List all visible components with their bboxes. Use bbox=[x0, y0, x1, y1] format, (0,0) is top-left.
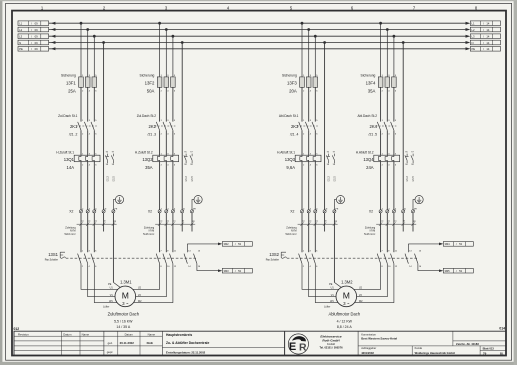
wire 13F3 N drop bbox=[324, 43, 326, 210]
PE earth connection symbol bbox=[194, 196, 202, 204]
net reference box 3M2 / 53 bbox=[222, 242, 252, 247]
switch 13S1 pole 11-12 bbox=[170, 254, 173, 264]
wire 13Q2 pin4 to terminal X2 bbox=[165, 162, 167, 210]
wire X2 to switch pole (phase 2) bbox=[386, 213, 388, 252]
net destination box L1 / 14 bbox=[470, 21, 500, 26]
wire 13S2 aux to 3M5/53 bbox=[418, 270, 439, 272]
net reference box 3M4 / 53 bbox=[443, 242, 473, 247]
svg-text:09: 09 bbox=[35, 41, 38, 45]
svg-text:14 / 35 A: 14 / 35 A bbox=[116, 325, 130, 329]
svg-text:13F4: 13F4 bbox=[366, 80, 376, 85]
wire 13F4 pin4 to 2K4 pin3 bbox=[386, 87, 388, 121]
wire X2 to switch pole (phase 3) bbox=[393, 213, 395, 252]
svg-text:Zuluftmotor Dach: Zuluftmotor Dach bbox=[108, 312, 140, 317]
wire 13Q1 pin6 to terminal X2 bbox=[93, 162, 95, 210]
net source box L2 / 09 bbox=[18, 27, 49, 32]
wire switch to motor W2 bbox=[125, 264, 173, 303]
svg-text:L2: L2 bbox=[472, 28, 475, 32]
wire 13Q4 pin2 to terminal X2 bbox=[380, 162, 382, 210]
switch 13S2 pole 9-10 bbox=[384, 254, 387, 264]
title block kommission section bbox=[357, 331, 359, 355]
PE earth connection symbol bbox=[115, 196, 123, 204]
wire switch to motor V2 bbox=[125, 264, 166, 297]
svg-text:Name: Name bbox=[148, 332, 156, 336]
svg-text:Best Western Savoy-Hotel: Best Western Savoy-Hotel bbox=[361, 337, 397, 341]
terminal X2:2 bbox=[158, 210, 161, 213]
wire X2 PE to motor bbox=[112, 213, 114, 283]
svg-text:1.3M1: 1.3M1 bbox=[120, 279, 132, 284]
switch 13S1 pole 1-2 bbox=[78, 254, 81, 264]
svg-text:Sicherung: Sicherung bbox=[140, 73, 155, 77]
title block blatt number bbox=[479, 346, 481, 356]
wire 2K2 pin6 to 13Q2 pin5 bbox=[172, 130, 174, 155]
svg-text:H.Abluft St.1: H.Abluft St.1 bbox=[277, 150, 295, 154]
switch 13S2 pole 7-8 bbox=[377, 254, 380, 264]
svg-text:Zeichn.-Nr. 41183: Zeichn.-Nr. 41183 bbox=[456, 342, 479, 346]
cable marker 1.3W1 with core labels bbox=[298, 223, 338, 225]
terminal X2:4 bbox=[307, 210, 310, 213]
svg-text:gg: gg bbox=[413, 221, 415, 223]
svg-text:Abl.Dach St.1: Abl.Dach St.1 bbox=[279, 114, 299, 118]
wire X2 to switch pole (phase 1) bbox=[159, 213, 161, 252]
wire X2 to switch pole (phase 3) bbox=[93, 213, 95, 252]
svg-text:13Q3: 13Q3 bbox=[285, 157, 296, 162]
terminal X2:PE bbox=[333, 210, 336, 213]
svg-text:Tel. 02151 / 500576: Tel. 02151 / 500576 bbox=[319, 346, 343, 350]
svg-text:012: 012 bbox=[14, 327, 20, 331]
junction node L2/13F1 bbox=[86, 28, 89, 31]
terminal X2:N bbox=[323, 210, 326, 213]
wire X2 N stub bbox=[103, 213, 105, 232]
svg-text:Lüfter: Lüfter bbox=[103, 305, 109, 308]
svg-text:13Q2: 13Q2 bbox=[142, 157, 153, 162]
wire 13F1 phase L1 drop bbox=[80, 23, 82, 77]
svg-text:3M3: 3M3 bbox=[224, 269, 230, 273]
svg-text:H.Zuluft St.2: H.Zuluft St.2 bbox=[135, 150, 153, 154]
junction node L1/13F3 bbox=[301, 22, 304, 25]
svg-text:N: N bbox=[19, 41, 21, 45]
wire X2 PE stub bbox=[412, 213, 414, 232]
svg-text:Zul.Dach St.2: Zul.Dach St.2 bbox=[137, 114, 157, 118]
svg-text:4 / 12 KW: 4 / 12 KW bbox=[337, 319, 353, 323]
title block gez/gepr section bbox=[103, 331, 105, 355]
svg-text:9,6A: 9,6A bbox=[286, 165, 295, 170]
svg-text:/ 21.2: / 21.2 bbox=[328, 176, 330, 182]
svg-text:X2: X2 bbox=[69, 210, 73, 214]
svg-text:5x16 mm²: 5x16 mm² bbox=[143, 233, 154, 236]
svg-text:14: 14 bbox=[486, 22, 489, 26]
svg-text:2K4: 2K4 bbox=[370, 124, 378, 129]
junction node L1/13F4 bbox=[379, 22, 382, 25]
wire 13F1 phase L2 drop bbox=[87, 30, 89, 77]
wire 13F4 phase L3 drop bbox=[393, 36, 395, 77]
svg-text:gg: gg bbox=[114, 221, 116, 223]
svg-text:Blatt 013: Blatt 013 bbox=[483, 346, 495, 350]
svg-text:2K3: 2K3 bbox=[291, 124, 299, 129]
svg-text:14: 14 bbox=[486, 35, 489, 39]
svg-text:3 ~: 3 ~ bbox=[122, 301, 129, 306]
svg-text:/21 .3: /21 .3 bbox=[148, 132, 157, 136]
svg-text:79: 79 bbox=[483, 352, 487, 356]
svg-text:Datum: Datum bbox=[125, 332, 134, 336]
svg-text:/ 21.5: / 21.5 bbox=[334, 176, 336, 182]
svg-text:Wolderings Haustechnik GmbH: Wolderings Haustechnik GmbH bbox=[415, 351, 455, 355]
wire X2 N stub bbox=[181, 213, 183, 232]
PE earth connection symbol bbox=[336, 196, 344, 204]
svg-text:Roth GmbH: Roth GmbH bbox=[322, 338, 340, 342]
wire 13Q1 pin4 to terminal X2 bbox=[87, 162, 89, 210]
wire 13F4 pin2 to 2K4 pin1 bbox=[380, 87, 382, 121]
svg-text:/ 21.2: / 21.2 bbox=[107, 176, 109, 182]
net destination box N / 14 bbox=[470, 40, 500, 45]
wire 13S1 aux to 3M2/53 bbox=[187, 243, 218, 245]
net destination box L2 / 14 bbox=[470, 27, 500, 32]
wire 13F1 N drop bbox=[103, 43, 105, 210]
title block frame bbox=[14, 331, 506, 355]
net source box N / 09 bbox=[18, 40, 49, 45]
svg-text:09: 09 bbox=[35, 47, 38, 51]
svg-text:H.Zuluft St.1: H.Zuluft St.1 bbox=[56, 150, 74, 154]
svg-text:3M4: 3M4 bbox=[445, 242, 451, 246]
wire switch to motor UU1 bbox=[302, 264, 346, 290]
svg-text:gez.: gez. bbox=[108, 341, 114, 345]
svg-text:M: M bbox=[122, 291, 129, 301]
svg-text:L2: L2 bbox=[19, 28, 22, 32]
wire 13F4 phase L2 drop bbox=[386, 30, 388, 77]
wire 13F3 pin2 to 2K3 pin1 bbox=[301, 87, 303, 121]
junction node L2/13F4 bbox=[386, 28, 389, 31]
terminal X2:PE bbox=[190, 210, 193, 213]
wire 2K2 pin2 to 13Q2 pin1 bbox=[159, 130, 161, 155]
wire bus N bbox=[49, 42, 466, 44]
svg-text:Rep.Schalter: Rep.Schalter bbox=[266, 259, 280, 262]
wire 13F4 phase L1 drop bbox=[380, 23, 382, 77]
terminal X2:4 bbox=[86, 210, 89, 213]
cable marker 1.3W1 with core labels bbox=[77, 223, 117, 225]
wire switch to motor U2 bbox=[125, 264, 159, 290]
wire 13Q3 pin6 to terminal X2 bbox=[314, 162, 316, 210]
terminal X2:6 bbox=[392, 210, 395, 213]
wire 2K4 pin2 to 13Q4 pin1 bbox=[380, 130, 382, 155]
svg-text:/21 .2: /21 .2 bbox=[69, 132, 78, 136]
switch 13S2 pole 1-2 bbox=[299, 254, 302, 264]
svg-text:50A: 50A bbox=[147, 89, 155, 94]
switch 13S1 auxiliary contact 13-14 bbox=[184, 254, 187, 264]
svg-text:/ 21.5: / 21.5 bbox=[113, 176, 115, 182]
wire switch to motor V2 bbox=[346, 264, 387, 297]
wire X2 N stub bbox=[324, 213, 326, 232]
junction node L3/13F3 bbox=[314, 35, 317, 38]
svg-text:X2: X2 bbox=[148, 210, 152, 214]
wire 13F4 N drop bbox=[402, 43, 404, 210]
svg-text:14: 14 bbox=[486, 47, 489, 51]
junction node L3/13F2 bbox=[172, 35, 175, 38]
motor 1.3M2 (M 3~) bbox=[336, 286, 357, 307]
junction node L2/13F2 bbox=[165, 28, 168, 31]
svg-text:L3: L3 bbox=[19, 35, 22, 39]
net destination box L3 / 14 bbox=[470, 34, 500, 39]
wire 13F3 phase L3 drop bbox=[314, 36, 316, 77]
wire PE lead from earth symbol bbox=[334, 200, 336, 210]
wire 2K1 pin4 to 13Q1 pin3 bbox=[87, 130, 89, 155]
wire 13F1 pin4 to 2K1 pin3 bbox=[87, 87, 89, 121]
wire PE lead from earth symbol bbox=[113, 200, 115, 210]
PE earth connection symbol bbox=[415, 196, 423, 204]
svg-text:5,5 / 16 KW: 5,5 / 16 KW bbox=[114, 319, 133, 323]
wire X2 to switch pole (phase 1) bbox=[80, 213, 82, 252]
svg-text:Zul.Dach St.1: Zul.Dach St.1 bbox=[58, 114, 78, 118]
svg-text:Erstellungsdatum: 22.11.200: Erstellungsdatum: 22.11.2002 bbox=[166, 350, 206, 354]
terminal X2:6 bbox=[93, 210, 96, 213]
svg-text:Sicherung: Sicherung bbox=[282, 73, 297, 77]
svg-text:14A: 14A bbox=[67, 165, 75, 170]
wire switch to motor UV1 bbox=[88, 264, 126, 297]
svg-text:8,8 / 24 A: 8,8 / 24 A bbox=[337, 325, 352, 329]
svg-text:X2: X2 bbox=[369, 210, 373, 214]
title block revision table bbox=[14, 335, 104, 337]
svg-text:Datum: Datum bbox=[63, 332, 72, 336]
svg-text:13S2: 13S2 bbox=[269, 252, 279, 257]
junction node L1/13F2 bbox=[158, 22, 161, 25]
wire 13S1 aux to 3M3/53 bbox=[197, 270, 218, 272]
wire PE to motor bbox=[334, 282, 341, 287]
svg-text:13F3: 13F3 bbox=[287, 80, 297, 85]
motor 1.3M1 (M 3~) bbox=[115, 286, 136, 307]
svg-text:13Q1: 13Q1 bbox=[64, 157, 75, 162]
svg-text:14: 14 bbox=[486, 28, 489, 32]
svg-text:Revision: Revision bbox=[18, 332, 29, 336]
wire 13F2 phase L2 drop bbox=[165, 30, 167, 77]
switch 13S1 pole 7-8 bbox=[156, 254, 159, 264]
wire 13Q3 pin2 to terminal X2 bbox=[301, 162, 303, 210]
wire X2 to switch pole (phase 2) bbox=[165, 213, 167, 252]
wire 13F1 pin2 to 2K1 pin1 bbox=[80, 87, 82, 121]
svg-text:2K1: 2K1 bbox=[70, 124, 78, 129]
switch 13S1 pole 3-4 bbox=[84, 254, 87, 264]
wire 13Q2 pin2 to terminal X2 bbox=[159, 162, 161, 210]
wire bus L2 bbox=[49, 29, 466, 31]
wire switch to motor UU1 bbox=[81, 264, 125, 290]
net source box L1 / 09 bbox=[18, 21, 49, 26]
wire X2 PE stub bbox=[191, 213, 193, 232]
svg-text:Sicherung: Sicherung bbox=[61, 73, 76, 77]
terminal X2:N bbox=[402, 210, 405, 213]
switch 13S1 pole 9-10 bbox=[163, 254, 166, 264]
svg-text:1.3M2: 1.3M2 bbox=[341, 279, 353, 284]
svg-text:25A: 25A bbox=[68, 89, 76, 94]
svg-text:Hauptstromkreis: Hauptstromkreis bbox=[166, 333, 192, 337]
terminal X2:N bbox=[102, 210, 105, 213]
wire 2K3 pin6 to 13Q3 pin5 bbox=[314, 130, 316, 155]
wire 13F3 pin4 to 2K3 pin3 bbox=[308, 87, 310, 121]
svg-text:Kunde: Kunde bbox=[415, 346, 423, 350]
net source box L3 / 09 bbox=[18, 34, 49, 39]
svg-text:M: M bbox=[343, 291, 350, 301]
svg-text:E: E bbox=[289, 341, 296, 353]
wire switch to motor W2 bbox=[346, 264, 394, 303]
wire X2 to switch pole (phase 3) bbox=[172, 213, 174, 252]
wire 13S2 aux to 3M4/53 bbox=[408, 243, 439, 245]
title block auftraggeber/kunde row bbox=[358, 345, 506, 347]
terminal X2:PE bbox=[411, 210, 414, 213]
svg-text:gg: gg bbox=[192, 221, 194, 223]
svg-text:X2: X2 bbox=[290, 210, 294, 214]
svg-text:Sicherung: Sicherung bbox=[361, 73, 376, 77]
svg-text:09: 09 bbox=[35, 22, 38, 26]
switch 13S2 pole 5-6 bbox=[312, 254, 315, 264]
wire 13F4 pin6 to 2K4 pin5 bbox=[393, 87, 395, 121]
svg-text:Krefeld: Krefeld bbox=[327, 343, 336, 346]
wire 2K4 pin4 to 13Q4 pin3 bbox=[386, 130, 388, 155]
svg-text:13F1: 13F1 bbox=[66, 80, 76, 85]
switch 13S2 pole 3-4 bbox=[305, 254, 308, 264]
switch 13S2 auxiliary contact 13-14 bbox=[405, 254, 408, 264]
terminal X2:4 bbox=[165, 210, 168, 213]
wire X2 to switch pole (phase 1) bbox=[301, 213, 303, 252]
wire 13Q4 pin6 to terminal X2 bbox=[393, 162, 395, 210]
svg-text:H.Abluft St.2: H.Abluft St.2 bbox=[356, 150, 374, 154]
terminal X2:6 bbox=[314, 210, 317, 213]
svg-text:PE: PE bbox=[108, 283, 112, 286]
svg-text:35A: 35A bbox=[368, 89, 376, 94]
switch 13S1 auxiliary contact 15-16 bbox=[194, 254, 197, 264]
company logo Elektroservice Roth bbox=[284, 331, 286, 355]
junction node N/13F4 bbox=[402, 41, 405, 44]
wire bus L1 bbox=[49, 22, 466, 24]
switch 13S2 auxiliary contact 15-16 bbox=[415, 254, 418, 264]
wire X2 to switch pole (phase 2) bbox=[87, 213, 89, 252]
wire 2K2 pin4 to 13Q2 pin3 bbox=[165, 130, 167, 155]
title block drawing title bbox=[161, 331, 163, 355]
wire 13F2 phase L1 drop bbox=[159, 23, 161, 77]
terminal X2:2 bbox=[300, 210, 303, 213]
svg-text:Abl.Dach St.2: Abl.Dach St.2 bbox=[358, 114, 378, 118]
terminal X2:N bbox=[181, 210, 184, 213]
svg-text:20.11.2002: 20.11.2002 bbox=[120, 341, 135, 345]
svg-text:/ 21.2: / 21.2 bbox=[186, 176, 188, 182]
svg-text:24A: 24A bbox=[366, 165, 374, 170]
svg-text:/21 .5: /21 .5 bbox=[369, 132, 378, 136]
svg-text:5x16 mm²: 5x16 mm² bbox=[364, 233, 375, 236]
wire X2 PE to motor bbox=[333, 213, 335, 283]
svg-text:L1: L1 bbox=[472, 22, 475, 26]
terminal X2:2 bbox=[379, 210, 382, 213]
net reference box 3M3 / 53 bbox=[222, 268, 252, 273]
switch 13S1 mechanical linkage (dashed) bbox=[66, 257, 198, 259]
net destination box PE / 14 bbox=[470, 47, 500, 52]
svg-text:Zu- & Ablüfter Dachzentrale: Zu- & Ablüfter Dachzentrale bbox=[166, 341, 209, 345]
wire 13F3 phase L2 drop bbox=[308, 30, 310, 77]
junction node N/13F3 bbox=[323, 41, 326, 44]
junction node L1/13F1 bbox=[80, 22, 83, 25]
svg-text:14: 14 bbox=[486, 41, 489, 45]
svg-text:Name: Name bbox=[82, 332, 90, 336]
svg-text:Lüfter: Lüfter bbox=[324, 305, 330, 308]
junction node N/13F1 bbox=[102, 41, 105, 44]
wire X2 to switch pole (phase 1) bbox=[380, 213, 382, 252]
svg-text:L3: L3 bbox=[472, 35, 475, 39]
svg-text:Kommission: Kommission bbox=[361, 332, 376, 336]
svg-text:PE: PE bbox=[329, 283, 333, 286]
wire X2 to switch pole (phase 3) bbox=[314, 213, 316, 252]
wire 13F2 N drop bbox=[181, 43, 183, 210]
svg-text:3M2: 3M2 bbox=[224, 242, 230, 246]
switch 13S1 pole 5-6 bbox=[91, 254, 94, 264]
terminal X2:PE bbox=[112, 210, 115, 213]
cable marker 1.3W2 with core labels bbox=[376, 223, 416, 225]
svg-text:5x16 mm²: 5x16 mm² bbox=[64, 233, 75, 236]
svg-text:PE: PE bbox=[472, 47, 476, 51]
wire switch to motor UW1 bbox=[315, 264, 346, 303]
svg-text:Roth: Roth bbox=[147, 341, 154, 345]
terminal X2:6 bbox=[171, 210, 174, 213]
wire PE lead from earth symbol bbox=[192, 200, 194, 210]
wire 13F3 phase L1 drop bbox=[301, 23, 303, 77]
svg-text:Abluftmotor Dach: Abluftmotor Dach bbox=[328, 312, 360, 317]
svg-text:13F2: 13F2 bbox=[145, 80, 155, 85]
svg-text:/ 21.2: / 21.2 bbox=[407, 176, 409, 182]
wire 2K4 pin6 to 13Q4 pin5 bbox=[393, 130, 395, 155]
junction node L2/13F3 bbox=[307, 28, 310, 31]
wire X2 to switch pole (phase 2) bbox=[308, 213, 310, 252]
svg-text:Rep.Schalter: Rep.Schalter bbox=[45, 259, 59, 262]
svg-text:/21 .4: /21 .4 bbox=[290, 132, 299, 136]
svg-text:Auftraggeber: Auftraggeber bbox=[361, 346, 376, 350]
wire bus L3 bbox=[49, 35, 466, 37]
wire switch to motor U2 bbox=[346, 264, 380, 290]
wire PE lead from earth symbol bbox=[413, 200, 415, 210]
junction node N/13F2 bbox=[181, 41, 184, 44]
terminal X2:4 bbox=[386, 210, 389, 213]
svg-text:20A: 20A bbox=[289, 89, 297, 94]
wire switch to motor UV1 bbox=[309, 264, 347, 297]
switch 13S2 mechanical linkage (dashed) bbox=[287, 257, 419, 259]
svg-text:Bl.: Bl. bbox=[500, 352, 504, 356]
wire switch to motor UW1 bbox=[94, 264, 125, 303]
svg-text:N: N bbox=[472, 41, 474, 45]
svg-text:gg: gg bbox=[335, 221, 337, 223]
svg-text:35A: 35A bbox=[145, 165, 153, 170]
svg-text:4301/2002: 4301/2002 bbox=[361, 351, 374, 355]
wire X2 N stub bbox=[402, 213, 404, 232]
wire 2K3 pin4 to 13Q3 pin3 bbox=[308, 130, 310, 155]
title block zeichnungsnummer bbox=[452, 331, 454, 346]
svg-text:PE: PE bbox=[19, 47, 23, 51]
cable marker 1.3W2 with core labels bbox=[155, 223, 195, 225]
svg-text:09: 09 bbox=[35, 28, 38, 32]
junction node L3/13F1 bbox=[93, 35, 96, 38]
wire 13F2 phase L3 drop bbox=[172, 36, 174, 77]
svg-text:3 ~: 3 ~ bbox=[343, 301, 350, 306]
net reference box 3M5 / 53 bbox=[443, 268, 473, 273]
svg-text:/ 21.5: / 21.5 bbox=[192, 176, 194, 182]
svg-text:gepr.: gepr. bbox=[107, 350, 114, 354]
wire 13Q1 pin2 to terminal X2 bbox=[80, 162, 82, 210]
junction node L3/13F4 bbox=[393, 35, 396, 38]
svg-text:3M5: 3M5 bbox=[445, 269, 451, 273]
svg-text:5x16 mm²: 5x16 mm² bbox=[285, 233, 296, 236]
net source box PE / 09 bbox=[18, 47, 49, 52]
svg-text:13Q4: 13Q4 bbox=[363, 157, 374, 162]
wire 2K3 pin2 to 13Q3 pin1 bbox=[301, 130, 303, 155]
svg-text:014: 014 bbox=[499, 326, 505, 330]
wire 13F2 pin6 to 2K2 pin5 bbox=[172, 87, 174, 121]
wire 13F1 pin6 to 2K1 pin5 bbox=[93, 87, 95, 121]
svg-text:13S1: 13S1 bbox=[48, 252, 58, 257]
wire bus PE bbox=[49, 48, 466, 50]
wire 13F2 pin2 to 2K2 pin1 bbox=[159, 87, 161, 121]
wire 2K1 pin6 to 13Q1 pin5 bbox=[93, 130, 95, 155]
